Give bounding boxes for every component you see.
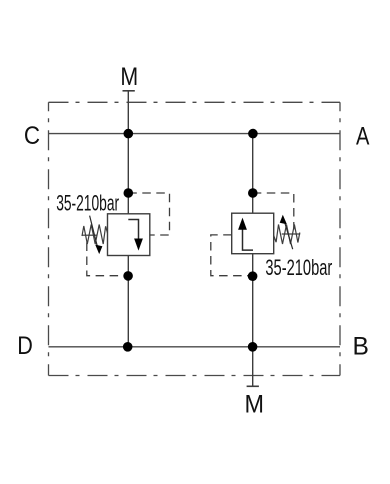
enclosure boundary frame left edge (dash-dot) — [48, 102, 50, 375]
enclosure boundary frame bottom edge (dash-dot) — [49, 375, 341, 377]
relief valve RV1 adjustment arrow (points down-right) — [90, 216, 98, 248]
junction node: right x D-B — [248, 342, 258, 352]
relief valve RV1 spring (zigzag, left side) — [82, 225, 108, 245]
relief valve RV2 adjustment arrow (points up-left) — [284, 221, 292, 249]
svg-text:C: C — [24, 122, 40, 150]
relief valve RV1 pilot line (dashed, from top node to right side) — [128, 193, 169, 235]
svg-text:A: A — [356, 122, 370, 150]
junction node: right drain (above RV2) — [248, 188, 258, 198]
relief valve RV1 spring axis crossbar — [82, 234, 98, 236]
measuring port M bottom tick — [247, 385, 259, 387]
svg-text:M: M — [245, 391, 265, 419]
relief valve RV2 body (right square) — [232, 213, 274, 254]
enclosure boundary frame right edge (dash-dot) — [339, 102, 341, 375]
junction node: left x C-A — [124, 129, 134, 139]
svg-text:D: D — [17, 332, 33, 360]
measuring port M top tick — [123, 90, 135, 92]
relief valve RV2 spring (zigzag, right side) — [274, 225, 300, 245]
junction node: left x D-B — [123, 342, 133, 352]
wire: left vertical line (M to RV1 top) — [127, 91, 129, 214]
wire: port line C-A — [49, 133, 341, 135]
relief valve RV2 pilot line (dashed, from bottom node to left side) — [211, 235, 253, 276]
relief valve RV1 spring drain line (dashed, to bottom node) — [87, 243, 128, 276]
wire: left vertical line (RV1 bottom to D-B) — [127, 256, 129, 347]
svg-text:M: M — [120, 63, 138, 91]
wire: right vertical line (C-A to RV2 top) — [252, 134, 254, 214]
relief valve RV2 internal flow arrow (up) — [243, 230, 254, 251]
svg-text:35-210bar: 35-210bar — [265, 255, 332, 280]
relief valve RV2 spring axis crossbar — [282, 233, 301, 235]
relief valve RV1 body (left square) — [108, 214, 150, 256]
wire: right vertical line (RV2 bottom to M bottom) — [252, 254, 254, 387]
svg-text:35-210bar: 35-210bar — [56, 191, 119, 216]
enclosure boundary frame top edge (dash-dot) — [49, 101, 341, 103]
svg-text:B: B — [353, 333, 369, 361]
wire: port line D-B — [49, 346, 341, 348]
junction node: right x C-A — [248, 129, 258, 139]
junction node: right pilot (below RV2) — [248, 271, 258, 281]
relief valve RV1 internal flow arrow (down) — [128, 220, 138, 241]
junction node: left pilot (above RV1) — [124, 188, 134, 198]
relief valve RV2 spring drain line (dashed, from top node) — [253, 193, 294, 230]
junction node: left drain (below RV1) — [123, 271, 133, 281]
